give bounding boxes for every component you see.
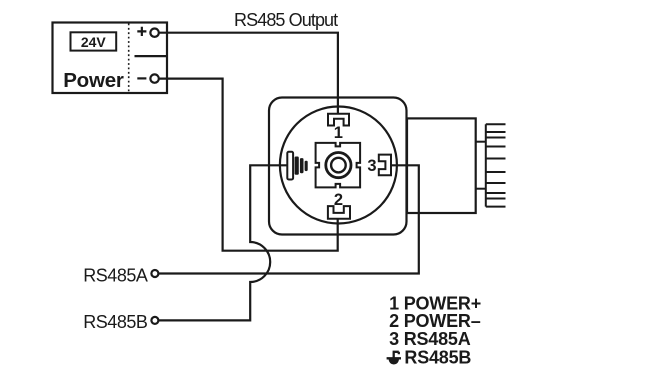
center keyway square <box>316 143 361 188</box>
pin 3 contact <box>379 155 391 176</box>
svg-text:RS485 Output: RS485 Output <box>234 10 338 30</box>
center hole ring outer <box>326 153 351 178</box>
earth pin bar 1 <box>287 152 293 180</box>
pin 2 contact <box>328 206 350 219</box>
svg-text:24V: 24V <box>81 34 107 50</box>
terminal + <box>150 29 158 37</box>
plus sign <box>137 27 146 36</box>
svg-text:RS485B: RS485B <box>83 312 148 332</box>
earth pin bar 3 <box>300 158 304 173</box>
wire POWER- <box>159 79 338 251</box>
DIN connector body <box>269 98 407 235</box>
svg-text:RS485A: RS485A <box>83 266 148 286</box>
connector side body <box>407 118 476 213</box>
center hole ring inner <box>331 158 346 173</box>
svg-text:2: 2 <box>334 191 343 209</box>
terminal RS485A <box>151 270 158 277</box>
earth pin bar 4 <box>305 161 308 171</box>
pin 1 contact <box>328 114 349 126</box>
earth pin bar 2 <box>295 157 299 175</box>
minus sign <box>137 77 146 79</box>
power supply box <box>53 23 168 94</box>
wire POWER+ <box>159 33 338 114</box>
svg-text:3 RS485A: 3 RS485A <box>389 329 471 349</box>
svg-text:3: 3 <box>367 157 376 175</box>
svg-text:1: 1 <box>334 124 343 142</box>
terminal - <box>150 74 158 82</box>
cable comb teeth <box>486 124 506 206</box>
svg-text:RS485B: RS485B <box>404 348 471 368</box>
24V label box <box>71 32 117 50</box>
cable comb spine <box>485 124 487 206</box>
wire RS485A <box>158 165 418 273</box>
power box dotted divider <box>128 24 130 93</box>
wire RS485B <box>158 165 287 320</box>
legend earth symbol <box>387 352 401 359</box>
side body stub upper <box>476 141 486 143</box>
svg-text:Power: Power <box>63 69 124 92</box>
side body stub lower <box>476 188 486 190</box>
terminal RS485B <box>151 317 158 324</box>
power terminal divider <box>135 55 168 57</box>
connector face circle <box>280 107 397 224</box>
